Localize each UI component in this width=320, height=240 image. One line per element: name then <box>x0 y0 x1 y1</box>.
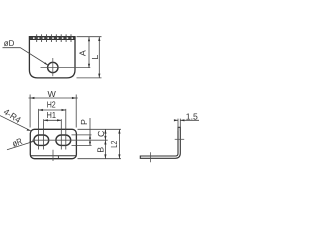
svg-text:1.5: 1.5 <box>186 111 198 121</box>
dim B <box>96 140 107 159</box>
svg-text:H1: H1 <box>47 110 57 120</box>
ext line top <box>77 36 102 38</box>
svg-text:L2: L2 <box>109 141 119 148</box>
front view outline <box>29 37 75 78</box>
dim H1 <box>44 110 62 149</box>
svg-text:L: L <box>90 55 100 60</box>
svg-text:B: B <box>96 147 106 153</box>
side view center marks <box>151 139 185 162</box>
side view L profile <box>140 127 180 158</box>
slot right <box>56 135 71 145</box>
svg-text:C: C <box>96 130 106 137</box>
slot center line <box>32 139 108 141</box>
dim 1.5 <box>174 111 199 131</box>
hole oD <box>48 62 58 72</box>
ext lines right of top view <box>72 129 122 158</box>
center tick bottom <box>52 150 54 161</box>
slot left <box>34 135 49 145</box>
ext line bottom <box>77 77 102 79</box>
bend line top view <box>31 156 77 159</box>
label 4-R4 leader <box>0 107 31 131</box>
dim H2 <box>39 100 66 150</box>
dim W <box>29 89 78 128</box>
dim C <box>96 129 107 158</box>
dim P <box>79 118 91 145</box>
dim L <box>90 37 100 78</box>
top view outline <box>30 129 76 158</box>
hole center lines <box>41 58 91 76</box>
svg-text:P: P <box>79 119 89 125</box>
svg-text:W: W <box>48 89 57 99</box>
dim L2 <box>109 129 121 158</box>
label oD leader <box>3 38 49 65</box>
svg-text:H2: H2 <box>47 100 56 110</box>
band ticks <box>37 34 71 42</box>
label oR leader <box>7 136 34 150</box>
svg-text:øD: øD <box>4 38 15 48</box>
bend band line <box>29 38 75 39</box>
dim A <box>78 37 90 68</box>
svg-text:A: A <box>78 50 88 56</box>
